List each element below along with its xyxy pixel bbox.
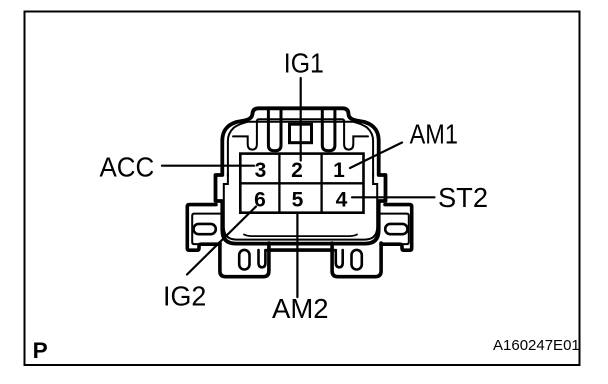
svg-text:AM1: AM1 [410, 119, 458, 150]
svg-text:IG1: IG1 [284, 47, 324, 78]
inner cavity bottom line [244, 235, 357, 237]
right prong [322, 110, 335, 151]
left ear oval hole [194, 224, 216, 234]
leader line AM1 [350, 143, 402, 169]
leader line IG2 [187, 207, 256, 275]
terminal grid [240, 154, 363, 213]
right foot slot 2 [352, 250, 362, 270]
center square [290, 124, 312, 143]
top bump inner line with hook slots [233, 119, 368, 149]
svg-text:ACC: ACC [100, 152, 155, 183]
svg-text:3: 3 [255, 159, 267, 182]
connector inner contour [228, 122, 373, 176]
right ear oval hole [385, 224, 407, 234]
left foot slot 2 [259, 250, 266, 267]
right foot [332, 243, 381, 277]
connector body outline [216, 108, 386, 243]
svg-text:AM2: AM2 [272, 293, 329, 324]
svg-text:P: P [33, 338, 48, 363]
svg-text:A160247E01: A160247E01 [493, 337, 580, 354]
bottom bar between feet [268, 248, 333, 252]
leader line AM2 [296, 214, 298, 297]
left foot [220, 243, 269, 277]
svg-text:ST2: ST2 [438, 182, 488, 213]
left foot slot 1 [239, 250, 249, 270]
leader line ST2 [352, 196, 435, 198]
svg-text:1: 1 [333, 159, 345, 182]
svg-text:IG2: IG2 [163, 280, 206, 311]
svg-text:2: 2 [291, 159, 303, 182]
svg-text:6: 6 [254, 189, 266, 212]
right ear [381, 205, 412, 251]
left ear [187, 205, 220, 251]
leader line IG1 [300, 78, 302, 161]
svg-text:4: 4 [336, 189, 348, 212]
wire labels [100, 47, 489, 324]
svg-text:5: 5 [292, 189, 304, 212]
left prong [268, 110, 281, 151]
right foot slot 1 [336, 250, 343, 267]
leader line ACC [162, 165, 254, 167]
pin numbers [254, 159, 348, 212]
